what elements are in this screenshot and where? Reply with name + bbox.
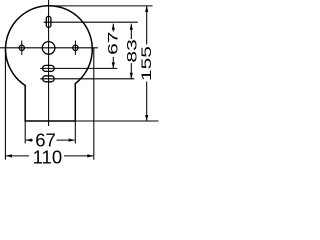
node ext-right [93, 48, 95, 160]
node mounting-plate-circle [6, 6, 93, 86]
node right-hole [73, 45, 78, 50]
node lamp-body [25, 83, 75, 121]
svg-text:110: 110 [33, 147, 63, 168]
node ext-body-left [24, 121, 26, 144]
node ext-body-right [74, 121, 76, 144]
node dim-155-vertical [146, 6, 148, 121]
node slot-A [43, 65, 55, 71]
node dim-67-bottom [26, 139, 75, 141]
node bottom-extension-line [75, 120, 158, 122]
node dim-67-vertical [112, 24, 114, 69]
node ext-left [4, 48, 6, 160]
node top-slot [46, 16, 51, 27]
node horizontal-centerline [0, 47, 98, 49]
svg-text:155: 155 [138, 46, 154, 81]
node center-hole [42, 42, 55, 55]
node dim-83-vertical [130, 24, 132, 79]
svg-text:67: 67 [105, 31, 121, 54]
node top-leader [49, 5, 153, 7]
node left-hole [19, 45, 24, 50]
node vertical-centerline [48, 0, 50, 126]
node slot-B [43, 76, 55, 82]
wire [0, 0, 160, 172]
node dim-110-bottom [6, 155, 93, 157]
svg-text:83: 83 [124, 39, 140, 62]
